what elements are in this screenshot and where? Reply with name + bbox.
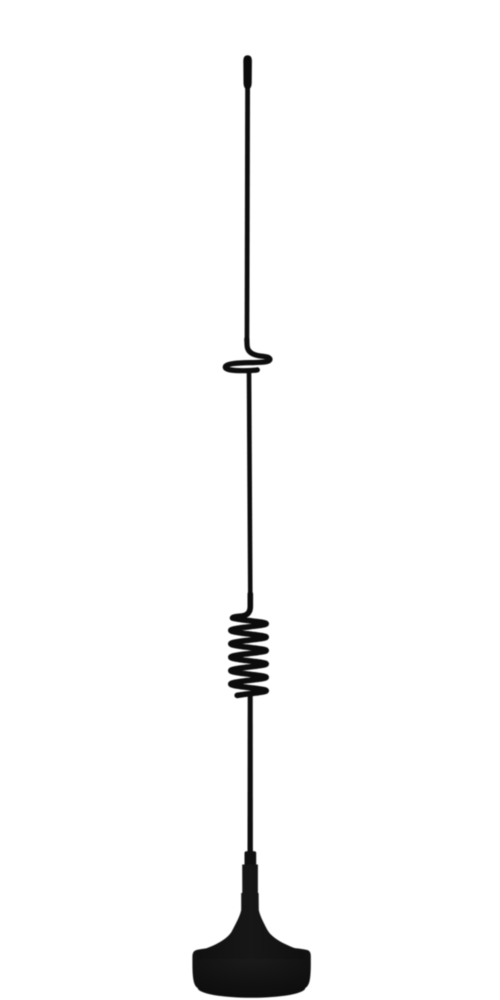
- lower whip rod: [248, 695, 253, 855]
- phasing loop: [225, 339, 270, 371]
- upper whip rod: [245, 89, 250, 346]
- antenna tip cap: [243, 55, 252, 91]
- magnet disc: [192, 946, 310, 997]
- base collar: [245, 851, 257, 864]
- base neck and trumpet flare: [197, 865, 305, 960]
- middle whip rod: [247, 371, 253, 601]
- loading coil spring: [231, 594, 266, 695]
